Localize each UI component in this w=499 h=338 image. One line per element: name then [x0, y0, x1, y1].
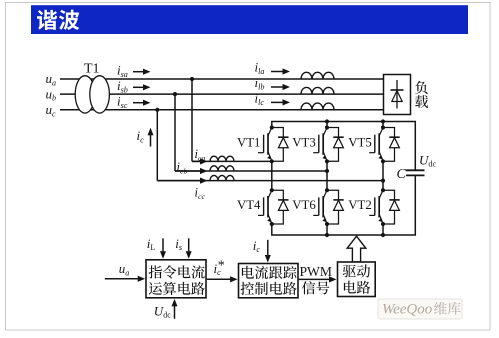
wire i_cc branch [157, 180, 383, 182]
wire phase c [60, 109, 384, 111]
wire leg2 stub top [326, 122, 328, 128]
wire i_c sense down arrow [267, 240, 269, 256]
watermark box [378, 299, 462, 319]
capacitor C plates [406, 169, 425, 171]
wire i_ca branch [192, 160, 272, 162]
input i_L arrow [162, 238, 164, 252]
input u_a arrow [105, 278, 139, 280]
control box1 指令电流运算电路 [146, 260, 206, 298]
svg-text:T1: T1 [84, 61, 100, 76]
control box3 驱动电路 [338, 262, 376, 297]
wire leg2 stub bottom [326, 225, 328, 235]
node bottom rail leg2 [325, 233, 329, 237]
wire PWM arrow [299, 278, 331, 280]
wire i_cb branch [175, 170, 327, 172]
node leg3 i_cc junction [381, 179, 385, 183]
wire leg3 stub top [382, 122, 384, 128]
svg-text:C: C [397, 167, 407, 182]
svg-text:VT4: VT4 [237, 198, 261, 212]
node top rail leg2 [325, 119, 329, 123]
input i_s arrow [188, 238, 190, 252]
svg-text:WeeQoo: WeeQoo [382, 301, 433, 317]
input U_dc arrow [174, 305, 176, 318]
svg-text:VT2: VT2 [348, 198, 371, 212]
node tap b [173, 92, 177, 96]
wire tap c down [156, 110, 158, 181]
igbt VT2 [369, 188, 400, 226]
node tap c [155, 108, 159, 112]
wire dc top rail [272, 122, 416, 171]
wire i_c* arrow [207, 278, 232, 280]
node top rail leg3 [381, 119, 385, 123]
wire tap b down [174, 94, 176, 171]
label 信号 [302, 281, 330, 294]
igbt VT5 [369, 125, 400, 163]
igbt VT4 [258, 188, 289, 226]
inductor load phase b [301, 87, 334, 94]
wire leg3 stub bottom [382, 225, 384, 235]
wire leg3 mid [382, 161, 384, 190]
svg-text:PWM: PWM [300, 264, 332, 279]
load rectifier diode [396, 80, 398, 109]
svg-text:VT5: VT5 [348, 135, 371, 149]
watermark 维库 [434, 302, 461, 315]
wire phase a [60, 78, 384, 80]
wire leg2 mid [326, 161, 328, 190]
igbt VT1 [258, 125, 289, 163]
svg-text:VT1: VT1 [237, 135, 260, 149]
igbt VT6 [313, 188, 344, 226]
drive block arrow (hollow) [347, 236, 366, 262]
wire phase b [60, 93, 384, 95]
wire dc bottom rail [272, 175, 416, 235]
control box2 电流跟踪控制电路 [239, 264, 299, 298]
igbt VT3 [313, 125, 344, 163]
inductor load phase a [301, 72, 334, 79]
svg-text:VT3: VT3 [292, 135, 315, 149]
title bar [31, 5, 468, 34]
svg-text:*: * [218, 258, 225, 273]
compensation current i_c up arrow [150, 134, 152, 146]
node leg2 i_cb junction [325, 169, 329, 173]
wire tap a down [191, 79, 193, 161]
inductor load phase c [301, 103, 334, 110]
svg-text:VT6: VT6 [292, 198, 316, 212]
transformer T1 [75, 76, 95, 113]
node bottom rail leg3 [381, 233, 385, 237]
node tap a [190, 77, 194, 81]
wire leg1 mid [271, 161, 273, 190]
title text 谐波 [37, 10, 79, 30]
load box [384, 75, 411, 115]
load label 负载 [415, 81, 428, 94]
